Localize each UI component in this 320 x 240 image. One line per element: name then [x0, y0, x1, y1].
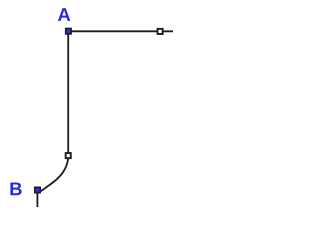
wire: curved segment from open handle to node B	[40, 156, 69, 193]
label B	[10, 183, 21, 196]
node B (filled blue square)	[34, 187, 41, 194]
open handle on vertical wire	[65, 152, 72, 159]
wire: vertical from node A down to open handle	[67, 31, 69, 155]
node A (filled blue square)	[65, 28, 72, 35]
label A	[58, 8, 70, 21]
wire: horizontal from node A to right edge	[68, 30, 174, 32]
open handle on horizontal wire	[157, 28, 164, 35]
wire: vertical stub below node B	[36, 190, 38, 208]
